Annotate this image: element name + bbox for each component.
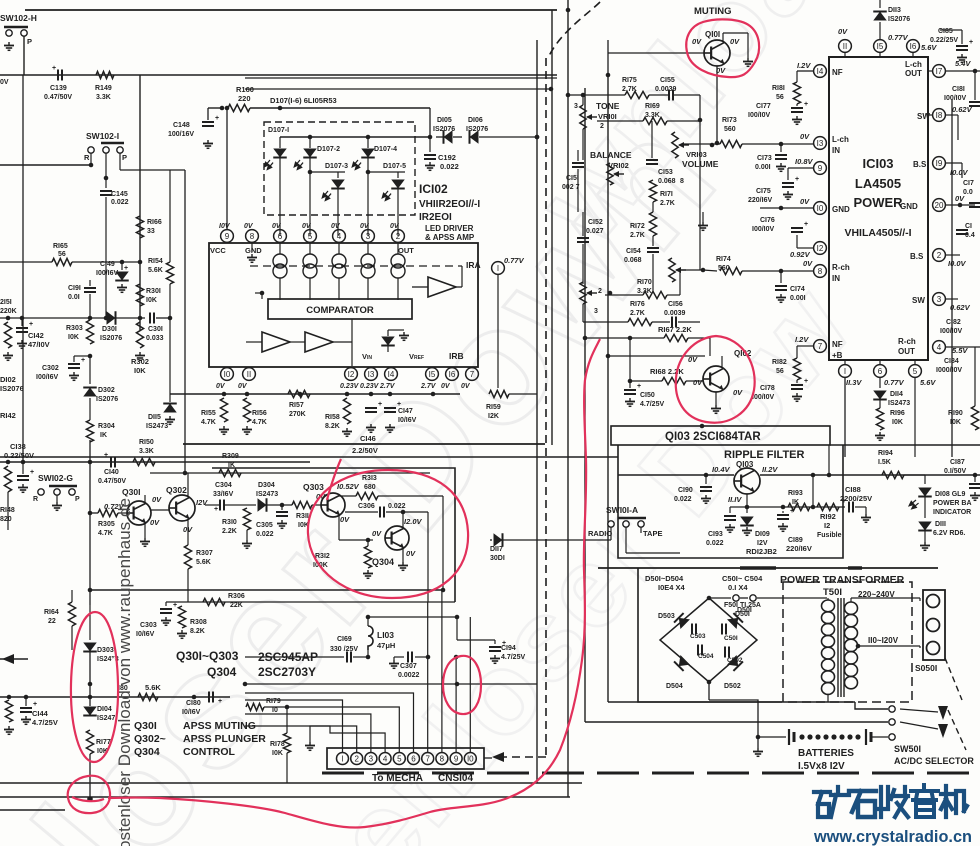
transistor Q304 bbox=[385, 526, 409, 550]
svg-text:T50I: T50I bbox=[823, 587, 842, 598]
svg-text:0V: 0V bbox=[302, 223, 312, 230]
svg-text:POWER TRANSFORMER: POWER TRANSFORMER bbox=[780, 574, 905, 586]
wire bbox=[151, 509, 169, 511]
svg-text:CI52: CI52 bbox=[588, 219, 603, 226]
svg-text:I4: I4 bbox=[817, 67, 824, 76]
svg-text:IS2076: IS2076 bbox=[100, 335, 122, 342]
svg-text:DI04: DI04 bbox=[97, 706, 112, 713]
svg-text:S050I: S050I bbox=[915, 663, 937, 673]
switch SW102-G bbox=[49, 485, 77, 488]
resistor R181 bbox=[796, 71, 798, 82]
svg-text:D50I: D50I bbox=[735, 611, 750, 618]
svg-text:ICI02: ICI02 bbox=[419, 182, 448, 196]
svg-text:C503: C503 bbox=[690, 633, 706, 640]
node bbox=[88, 682, 93, 687]
svg-text:33: 33 bbox=[147, 228, 155, 235]
capacitor C147a bbox=[365, 407, 377, 409]
svg-text:SW: SW bbox=[912, 296, 925, 305]
amplifier triangle U-a bbox=[262, 332, 290, 352]
svg-text:VRI0I: VRI0I bbox=[598, 112, 617, 121]
svg-text:& APSS AMP: & APSS AMP bbox=[425, 233, 475, 242]
wire bbox=[246, 341, 262, 343]
svg-text:4: 4 bbox=[337, 232, 342, 241]
wire bbox=[757, 682, 759, 737]
svg-text:0.77V: 0.77V bbox=[504, 256, 525, 265]
svg-text:R: R bbox=[33, 496, 38, 503]
svg-text:IS2473: IS2473 bbox=[888, 400, 910, 407]
wire rail E bbox=[607, 75, 609, 702]
bottom dashed border bbox=[322, 772, 980, 775]
svg-text:0V: 0V bbox=[692, 37, 702, 46]
svg-text:RI70: RI70 bbox=[637, 279, 652, 286]
svg-text:3.3K: 3.3K bbox=[139, 448, 154, 455]
resistor R156 bbox=[243, 398, 250, 422]
svg-text:0.92V: 0.92V bbox=[790, 250, 811, 259]
current source bbox=[361, 254, 375, 268]
svg-text:0.4: 0.4 bbox=[965, 232, 975, 239]
svg-text:AC/DC SELECTOR: AC/DC SELECTOR bbox=[894, 756, 974, 766]
svg-text:R306: R306 bbox=[228, 593, 245, 600]
svg-text:2.2K: 2.2K bbox=[222, 528, 237, 535]
svg-text:C192: C192 bbox=[438, 153, 456, 162]
wire bbox=[90, 153, 92, 165]
connector CNS104 box bbox=[327, 748, 484, 769]
svg-text:0V: 0V bbox=[390, 223, 400, 230]
resistor R159 bbox=[497, 274, 499, 388]
svg-text:2.7K: 2.7K bbox=[630, 232, 645, 239]
capacitor C142 bbox=[16, 327, 28, 329]
svg-text:CI53: CI53 bbox=[658, 169, 673, 176]
svg-text:+: + bbox=[33, 701, 37, 708]
svg-text:2SC2703Y: 2SC2703Y bbox=[258, 665, 316, 679]
bottom line 3 bbox=[0, 809, 65, 811]
svg-text:RI50: RI50 bbox=[139, 439, 154, 446]
ground bbox=[207, 140, 209, 144]
fuse F501 bbox=[709, 597, 731, 599]
svg-text:5.6K: 5.6K bbox=[148, 267, 163, 274]
svg-text:I0: I0 bbox=[817, 204, 824, 213]
pin 9 IC102 bbox=[221, 230, 234, 243]
svg-text:CI54: CI54 bbox=[626, 248, 641, 255]
svg-text:0V: 0V bbox=[152, 495, 162, 504]
svg-text:0.033: 0.033 bbox=[146, 335, 164, 342]
wire p9 bbox=[455, 657, 457, 752]
svg-text:RADIO: RADIO bbox=[588, 529, 612, 538]
svg-text:680: 680 bbox=[364, 484, 376, 491]
svg-text:9: 9 bbox=[225, 232, 230, 241]
pin 16 top bbox=[907, 40, 920, 53]
LED D108 power indicator bbox=[918, 488, 932, 497]
svg-text:I2: I2 bbox=[817, 244, 824, 253]
node bbox=[222, 392, 227, 397]
capacitor C177 bbox=[791, 107, 803, 109]
svg-text:3: 3 bbox=[574, 103, 578, 110]
svg-text:VOLUME: VOLUME bbox=[682, 159, 719, 169]
svg-text:CI44: CI44 bbox=[32, 709, 49, 718]
svg-text:I00/I0V: I00/I0V bbox=[944, 95, 967, 102]
svg-text:DII7: DII7 bbox=[490, 546, 503, 553]
pin 1 bottom bbox=[839, 365, 852, 378]
resistor R310 bbox=[243, 508, 250, 530]
red tail Q303 bbox=[327, 459, 341, 500]
capacitor C192 bbox=[429, 137, 431, 152]
svg-text:II: II bbox=[843, 42, 847, 51]
svg-text:RI58: RI58 bbox=[325, 414, 340, 421]
wire bbox=[89, 294, 91, 318]
svg-text:0.00I: 0.00I bbox=[755, 164, 771, 171]
current source bbox=[332, 254, 346, 268]
svg-text:C302: C302 bbox=[42, 365, 59, 372]
LED vref bbox=[387, 330, 389, 336]
svg-text:D50I~D504: D50I~D504 bbox=[645, 574, 684, 583]
svg-text:+: + bbox=[637, 383, 641, 390]
connector pin 2 bbox=[351, 753, 363, 765]
svg-text:220/I6V: 220/I6V bbox=[786, 544, 812, 553]
switch SW101-A bbox=[618, 517, 646, 520]
svg-text:DI02: DI02 bbox=[0, 375, 16, 384]
svg-text:C305: C305 bbox=[256, 522, 273, 529]
red oval D303 D104 bbox=[71, 612, 118, 762]
svg-text:2: 2 bbox=[354, 754, 359, 763]
svg-text:I2V: I2V bbox=[757, 540, 768, 547]
wire bbox=[250, 107, 430, 109]
svg-text:IS2076: IS2076 bbox=[96, 396, 118, 403]
svg-text:0.77V: 0.77V bbox=[888, 33, 909, 42]
svg-text:0V: 0V bbox=[461, 383, 471, 390]
LED D107-3 bbox=[310, 171, 345, 173]
svg-text:I0/I6V: I0/I6V bbox=[182, 709, 201, 716]
logo char shou bbox=[878, 787, 908, 817]
ground bbox=[56, 495, 58, 502]
pin 10 GND bbox=[814, 202, 827, 215]
svg-text:DII3: DII3 bbox=[888, 7, 901, 14]
svg-text:5: 5 bbox=[913, 367, 918, 376]
current source bbox=[273, 254, 287, 268]
svg-text:0V: 0V bbox=[216, 383, 226, 390]
bridge cap C504 bbox=[697, 645, 699, 656]
svg-text:P: P bbox=[75, 496, 80, 503]
svg-text:QI03 2SCI684TAR: QI03 2SCI684TAR bbox=[665, 431, 761, 443]
red long line bbox=[108, 339, 600, 828]
capacitor C303 bbox=[165, 602, 167, 606]
svg-text:4: 4 bbox=[937, 343, 942, 352]
wire LED rail bbox=[280, 136, 430, 138]
svg-text:D502: D502 bbox=[724, 683, 741, 690]
svg-text:2SC945AP: 2SC945AP bbox=[258, 650, 318, 664]
svg-text:8.2K: 8.2K bbox=[190, 628, 205, 635]
svg-text:II.2V: II.2V bbox=[762, 465, 778, 474]
svg-text:0.22/25V: 0.22/25V bbox=[930, 37, 958, 44]
svg-text:CI46: CI46 bbox=[360, 434, 376, 443]
wire bbox=[261, 293, 263, 299]
svg-text:002 7: 002 7 bbox=[562, 184, 580, 191]
resistor R306 bbox=[203, 598, 225, 605]
svg-text:BALANCE: BALANCE bbox=[590, 150, 632, 160]
svg-text:5.6K: 5.6K bbox=[196, 559, 211, 566]
svg-text:D107-3: D107-3 bbox=[325, 163, 348, 170]
svg-text:NF: NF bbox=[832, 340, 843, 349]
wire tap bbox=[856, 644, 861, 649]
svg-text:RI73: RI73 bbox=[722, 117, 737, 124]
pin 3 IC102 bbox=[362, 230, 375, 243]
svg-text:0.0: 0.0 bbox=[963, 189, 973, 196]
svg-text:33/I6V: 33/I6V bbox=[213, 491, 234, 498]
svg-text:D302: D302 bbox=[98, 387, 115, 394]
svg-text:0.0I: 0.0I bbox=[68, 294, 80, 301]
wire Q101 collector bbox=[722, 33, 724, 42]
transistor Q303 bbox=[321, 493, 345, 517]
resistor R154 bbox=[166, 262, 173, 284]
wire bbox=[682, 143, 720, 145]
capacitor C176 bbox=[796, 235, 798, 248]
wire bbox=[0, 164, 91, 166]
svg-text:R3I0: R3I0 bbox=[222, 519, 237, 526]
svg-text:I0/I6V: I0/I6V bbox=[136, 631, 155, 638]
wire bbox=[427, 657, 429, 683]
svg-text:0.022: 0.022 bbox=[440, 162, 459, 171]
pin 8 R-ch IN bbox=[814, 265, 827, 278]
svg-text:I3: I3 bbox=[817, 139, 824, 148]
svg-text:0V: 0V bbox=[803, 259, 813, 268]
switch SW102-I bbox=[101, 142, 124, 145]
wire bbox=[245, 88, 551, 90]
svg-text:0V: 0V bbox=[733, 388, 743, 397]
wire bbox=[184, 170, 186, 473]
svg-text:II.3V: II.3V bbox=[846, 378, 862, 387]
resistor R308 bbox=[181, 602, 183, 606]
svg-text:CI73: CI73 bbox=[757, 155, 772, 162]
thick dash bbox=[740, 566, 776, 570]
wire p4 bbox=[245, 726, 385, 752]
svg-text:+: + bbox=[804, 101, 808, 108]
capacitor C174 bbox=[780, 271, 782, 283]
capacitor C150 bbox=[629, 381, 631, 388]
svg-text:RI64: RI64 bbox=[44, 609, 59, 616]
svg-text:RI82: RI82 bbox=[772, 359, 787, 366]
dashed box D107 bbox=[264, 122, 415, 215]
svg-text:5.6V: 5.6V bbox=[920, 378, 936, 387]
svg-text:C307: C307 bbox=[400, 663, 417, 670]
amplifier triangle U-b bbox=[305, 332, 333, 352]
svg-text:6: 6 bbox=[278, 232, 283, 241]
svg-text:IR2EOI: IR2EOI bbox=[419, 212, 452, 223]
capacitor C173 bbox=[780, 143, 782, 152]
svg-text:C148: C148 bbox=[173, 122, 190, 129]
svg-text:I00/I6V: I00/I6V bbox=[96, 270, 119, 277]
svg-text:LI03: LI03 bbox=[377, 630, 394, 640]
dashed rail bbox=[545, 58, 547, 757]
svg-text:0V: 0V bbox=[838, 27, 848, 36]
svg-text:3.3K: 3.3K bbox=[96, 94, 111, 101]
svg-text:VRI02: VRI02 bbox=[608, 161, 629, 170]
resistor R311 bbox=[292, 501, 312, 508]
svg-text:I00/I0V: I00/I0V bbox=[752, 394, 775, 401]
svg-text:0V: 0V bbox=[693, 378, 703, 387]
pin 11 top bbox=[839, 40, 852, 53]
bottom line 2 bbox=[0, 796, 570, 798]
pin 20 GND bbox=[933, 199, 946, 212]
svg-text:NF: NF bbox=[832, 68, 843, 77]
pin 5 bottom bbox=[909, 365, 922, 378]
svg-text:D107-I: D107-I bbox=[268, 127, 289, 134]
svg-text:II: II bbox=[247, 370, 251, 379]
svg-text:+: + bbox=[795, 176, 799, 183]
svg-text:I00/I0V: I00/I0V bbox=[940, 328, 963, 335]
pin I0 IC102 bottom bbox=[221, 368, 234, 381]
svg-text:IS2076: IS2076 bbox=[0, 384, 24, 393]
svg-text:CI85: CI85 bbox=[938, 28, 953, 35]
svg-text:OUT: OUT bbox=[398, 246, 414, 255]
svg-text:CI50: CI50 bbox=[640, 392, 655, 399]
wire selector top bbox=[608, 702, 888, 709]
wire bbox=[119, 153, 121, 170]
svg-text:0.23V: 0.23V bbox=[340, 383, 360, 390]
svg-text:0.068: 0.068 bbox=[658, 178, 676, 185]
wire bbox=[703, 270, 717, 271]
svg-text:Q302: Q302 bbox=[166, 485, 187, 495]
svg-text:R304: R304 bbox=[98, 423, 115, 430]
capacitor C189 bbox=[777, 514, 789, 516]
svg-text:TONE: TONE bbox=[596, 101, 620, 111]
capacitor C307 bbox=[393, 660, 395, 664]
resistor R157 bbox=[288, 390, 310, 397]
LED D107-2 bbox=[309, 137, 311, 148]
resistor R312 bbox=[367, 540, 369, 546]
wire bbox=[412, 286, 428, 288]
svg-text:47μH: 47μH bbox=[377, 641, 395, 650]
svg-text:CI9I: CI9I bbox=[68, 285, 81, 292]
svg-text:I00/I6V: I00/I6V bbox=[36, 374, 59, 381]
svg-text:MUTING: MUTING bbox=[694, 6, 731, 17]
resistor R149 bbox=[96, 71, 114, 78]
capacitor C175 bbox=[787, 168, 789, 180]
pin I6 IC102 bottom bbox=[446, 368, 459, 381]
wire bbox=[105, 153, 107, 188]
transistor Q102 bbox=[703, 366, 729, 392]
svg-text:2.7V: 2.7V bbox=[379, 383, 396, 390]
pin 6 IC102 bbox=[274, 230, 287, 243]
svg-text:CI75: CI75 bbox=[756, 188, 771, 195]
svg-text:SW50I: SW50I bbox=[894, 744, 921, 754]
svg-text:I3: I3 bbox=[368, 370, 375, 379]
svg-text:I0K: I0K bbox=[146, 297, 157, 304]
svg-text:220K: 220K bbox=[0, 308, 17, 315]
svg-text:RI67 2.2K: RI67 2.2K bbox=[658, 325, 692, 334]
red circle Q102 bbox=[676, 336, 755, 423]
wire Q101 base bbox=[608, 52, 704, 54]
svg-text:30DI: 30DI bbox=[490, 555, 505, 562]
svg-text:4.7K: 4.7K bbox=[252, 419, 267, 426]
svg-text:RI65: RI65 bbox=[53, 243, 68, 250]
svg-text:2: 2 bbox=[600, 123, 604, 130]
svg-text:I0: I0 bbox=[224, 370, 231, 379]
svg-text:+: + bbox=[30, 469, 34, 476]
svg-text:47/I0V: 47/I0V bbox=[28, 340, 50, 349]
capacitor C151 bbox=[572, 162, 584, 164]
wire bus bbox=[0, 461, 310, 463]
svg-text:0V: 0V bbox=[272, 223, 282, 230]
ground bbox=[429, 162, 431, 166]
svg-text:C50I~ C504: C50I~ C504 bbox=[722, 574, 763, 583]
resistor R171 bbox=[649, 180, 656, 202]
red circle Q303 Q304 bbox=[308, 470, 468, 598]
svg-text:CI47: CI47 bbox=[398, 408, 413, 415]
svg-text:R: R bbox=[84, 153, 90, 162]
node bbox=[700, 424, 705, 429]
svg-text:DIII: DIII bbox=[935, 521, 946, 528]
svg-text:OUT: OUT bbox=[905, 69, 922, 78]
capacitor C301 bbox=[149, 313, 151, 324]
logo char yin bbox=[911, 785, 938, 817]
node bbox=[369, 392, 374, 397]
bridge diode D502 bbox=[727, 655, 743, 671]
wire Q301 emitter bbox=[144, 523, 146, 538]
capacitor C305 bbox=[281, 505, 283, 510]
svg-text:R-ch: R-ch bbox=[832, 263, 850, 272]
wire stub bbox=[484, 757, 492, 759]
resistor R301 bbox=[136, 284, 143, 306]
pin 4 IC102 bbox=[333, 230, 346, 243]
transformer core bbox=[837, 598, 839, 697]
resistor R305 bbox=[98, 509, 118, 516]
svg-text:0.23V: 0.23V bbox=[360, 383, 380, 390]
svg-text:CI90: CI90 bbox=[678, 487, 693, 494]
svg-text:56: 56 bbox=[58, 251, 66, 258]
svg-text:VRI03: VRI03 bbox=[686, 150, 707, 159]
svg-text:2.7K: 2.7K bbox=[660, 200, 675, 207]
svg-text:3: 3 bbox=[937, 295, 942, 304]
svg-text:0V: 0V bbox=[372, 529, 382, 538]
svg-text:POWER BA: POWER BA bbox=[933, 500, 972, 507]
capacitor C194 bbox=[457, 639, 495, 641]
svg-text:SW102-I: SW102-I bbox=[86, 131, 119, 141]
svg-text:D303: D303 bbox=[97, 647, 114, 654]
svg-text:0.62V: 0.62V bbox=[952, 105, 973, 114]
red circle node bbox=[68, 776, 110, 813]
svg-text:ostenloser Download von www.ra: ostenloser Download von www.raupenhaus.d… bbox=[116, 498, 134, 846]
svg-text:RI57: RI57 bbox=[289, 402, 304, 409]
svg-text:100/16V: 100/16V bbox=[168, 131, 194, 138]
svg-text:0V: 0V bbox=[331, 223, 341, 230]
svg-text:D107-5: D107-5 bbox=[383, 163, 406, 170]
wire bbox=[582, 95, 584, 105]
transformer section top bbox=[598, 567, 938, 569]
selector contact 2 bbox=[938, 724, 948, 738]
svg-text:0V: 0V bbox=[730, 37, 740, 46]
wire bbox=[456, 617, 458, 640]
svg-text:CI49: CI49 bbox=[100, 261, 115, 268]
svg-text:CI7: CI7 bbox=[963, 180, 974, 187]
dashed arrow bbox=[500, 756, 546, 758]
svg-text:220/I6V: 220/I6V bbox=[748, 197, 772, 204]
svg-text:+B: +B bbox=[832, 351, 843, 360]
wire bbox=[730, 506, 845, 508]
svg-text:0.I/50V: 0.I/50V bbox=[944, 468, 967, 475]
svg-text:RI76: RI76 bbox=[630, 301, 645, 308]
diode D104 bbox=[83, 707, 97, 716]
svg-text:R305: R305 bbox=[98, 521, 115, 528]
svg-text:0.77V: 0.77V bbox=[884, 378, 905, 387]
svg-text:IK: IK bbox=[100, 432, 107, 439]
svg-text:SWI0I-A: SWI0I-A bbox=[606, 505, 638, 515]
wire mid bus bbox=[0, 317, 105, 319]
svg-text:9: 9 bbox=[454, 754, 459, 763]
svg-text:CI69: CI69 bbox=[337, 636, 352, 643]
capacitor C145 bbox=[100, 190, 112, 192]
svg-text:I9: I9 bbox=[936, 159, 943, 168]
pin 2 IC102 bbox=[392, 230, 405, 243]
svg-text:0V: 0V bbox=[360, 223, 370, 230]
